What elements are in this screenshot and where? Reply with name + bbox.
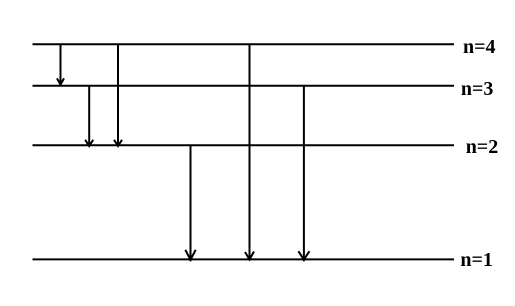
svg-text:n=4: n=4 [463,36,496,58]
transition arrow n=3 to n=2 [85,86,93,146]
energy level n=1 [33,258,455,260]
energy level n=4 [33,43,455,45]
energy level n=2 [33,144,455,146]
svg-text:n=2: n=2 [466,136,499,158]
transition arrow n=4 to n=2 [114,44,122,146]
transition arrow n=4 to n=1 [245,44,254,260]
transition arrow n=4 to n=3 [57,44,64,84]
svg-text:n=1: n=1 [460,249,493,271]
transition arrow n=2 to n=1 [185,145,195,261]
svg-text:n=3: n=3 [461,78,494,100]
transition arrow n=3 to n=1 [298,86,309,261]
energy level n=3 [33,85,455,87]
